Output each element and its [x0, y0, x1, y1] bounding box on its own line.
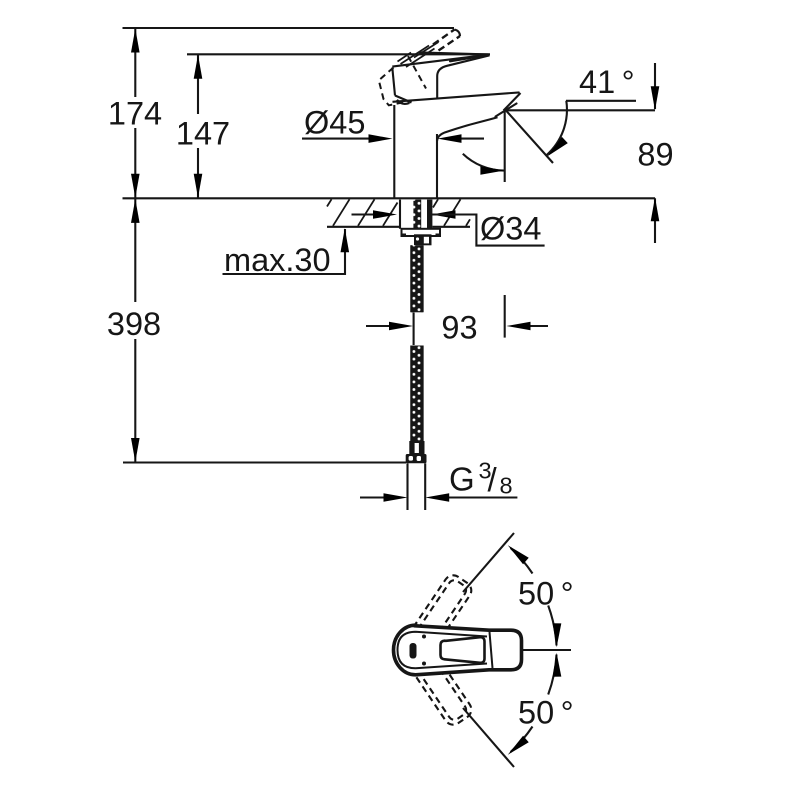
svg-text:G: G: [449, 461, 475, 498]
svg-text:max.30: max.30: [224, 242, 331, 278]
svg-text:89: 89: [637, 137, 673, 173]
svg-text:41 °: 41 °: [579, 64, 635, 100]
svg-text:Ø34: Ø34: [480, 211, 541, 247]
svg-text:147: 147: [176, 116, 230, 152]
svg-text:50 °: 50 °: [518, 695, 574, 731]
svg-text:174: 174: [108, 96, 162, 132]
svg-text:50 °: 50 °: [518, 576, 574, 612]
svg-text:93: 93: [441, 310, 477, 346]
svg-text:8: 8: [500, 473, 513, 499]
svg-text:/: /: [488, 461, 498, 498]
svg-text:398: 398: [107, 306, 161, 342]
svg-text:Ø45: Ø45: [304, 105, 365, 141]
